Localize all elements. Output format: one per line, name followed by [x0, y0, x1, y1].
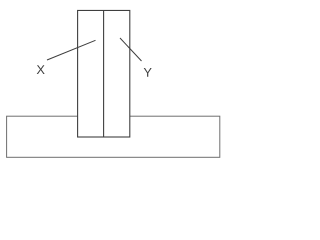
- leader line X: [47, 40, 96, 60]
- web rectangle (vertical plate, white fill over flange): [78, 10, 130, 137]
- label Y: [144, 68, 152, 77]
- flange rectangle (horizontal base plate): [7, 116, 220, 157]
- leader line Y: [120, 38, 142, 61]
- web centre line: [103, 10, 105, 137]
- label X: [37, 65, 45, 74]
